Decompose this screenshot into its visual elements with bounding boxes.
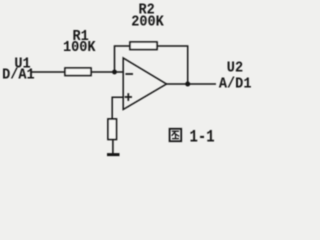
node A junction dot: [112, 70, 117, 75]
wire non-inverting input: [112, 97, 124, 119]
svg-text:D/A1: D/A1: [2, 67, 35, 84]
svg-text:200K: 200K: [131, 14, 164, 31]
wire to ground: [112, 139, 114, 154]
svg-text:A/D1: A/D1: [219, 76, 252, 93]
svg-text:1-1: 1-1: [190, 127, 215, 147]
wire R1 to inverting input: [91, 71, 124, 73]
wire feedback up: [115, 46, 131, 72]
wire input left: [32, 71, 67, 73]
resistor R1: [65, 68, 91, 76]
op-amp U: [123, 58, 166, 110]
svg-text:U2: U2: [227, 60, 243, 77]
wire output: [167, 83, 217, 85]
pin minus: [125, 73, 133, 75]
wire feedback down to output: [157, 46, 188, 84]
caption figure glyph 图: [170, 129, 182, 141]
pin plus: [125, 96, 132, 98]
node B junction dot: [185, 82, 190, 87]
resistor R3 (unlabeled, to ground): [108, 119, 116, 139]
ground: [107, 153, 120, 156]
resistor R2: [130, 42, 157, 50]
svg-text:100K: 100K: [63, 39, 96, 56]
